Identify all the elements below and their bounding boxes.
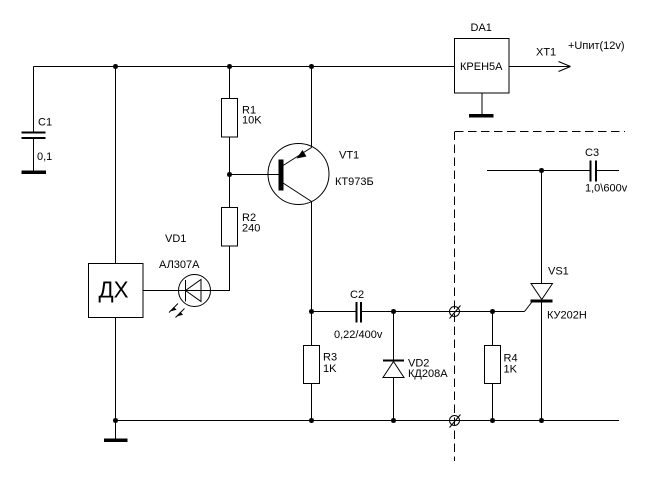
wire VD2 bottom — [393, 378, 395, 421]
wire top rail — [34, 66, 455, 68]
wire mid left of C2 — [312, 311, 356, 313]
svg-text:АЛ307А: АЛ307А — [159, 259, 200, 271]
wire C1 top — [33, 67, 35, 133]
wire VS1 cathode — [541, 303, 543, 421]
dashed boundary horizontal — [455, 131, 625, 133]
svg-text:VT1: VT1 — [339, 150, 359, 162]
resistor R3 — [304, 346, 320, 384]
node dot rail x=115 — [113, 418, 118, 423]
wire R1 to R2 — [229, 137, 231, 208]
wire DA1 output — [509, 66, 570, 68]
node dot C3 wire — [539, 168, 544, 173]
wire ground stub bottom left — [115, 421, 117, 440]
node dot top rail x=229 — [227, 64, 232, 69]
svg-text:+Uпит(12v): +Uпит(12v) — [568, 40, 625, 52]
node dot rail x=492 — [490, 418, 495, 423]
resistor R2 — [222, 208, 238, 247]
arrow XT1 — [559, 62, 571, 72]
svg-text:1,0\600v: 1,0\600v — [585, 183, 628, 195]
svg-text:C3: C3 — [585, 147, 599, 159]
wire C1 bottom — [33, 139, 35, 171]
resistor R1 — [222, 99, 238, 138]
node dot mid x=393 — [391, 309, 396, 314]
svg-text:VD1: VD1 — [165, 233, 186, 245]
IC DA1 box — [455, 39, 510, 94]
svg-text:240: 240 — [242, 223, 260, 235]
svg-text:КРЕН5А: КРЕН5А — [460, 61, 503, 73]
LED light arrow 1 — [169, 304, 178, 313]
wire base — [230, 174, 279, 176]
wire rail to R1 — [229, 67, 231, 99]
node dot rail x=311 — [309, 418, 314, 423]
connector X bottom — [450, 415, 461, 428]
svg-text:0,1: 0,1 — [37, 151, 52, 163]
svg-text:0,22/400v: 0,22/400v — [334, 329, 383, 341]
svg-text:КД208А: КД208А — [408, 368, 448, 380]
svg-text:DA1: DA1 — [471, 22, 492, 34]
ground DA1 — [469, 114, 494, 118]
wire DX to LED — [143, 290, 179, 292]
svg-text:1K: 1K — [504, 364, 518, 376]
capacitor C1 — [22, 133, 46, 139]
wire bottom rail — [116, 420, 620, 422]
svg-text:C2: C2 — [350, 289, 364, 301]
node dot mid x=492 — [490, 309, 495, 314]
dashed boundary vertical — [454, 132, 456, 462]
node dot rail x=393 — [391, 418, 396, 423]
wire R4 top — [492, 312, 494, 346]
svg-text:1K: 1K — [323, 363, 337, 375]
wire emitter — [311, 67, 313, 148]
wire C3 left — [487, 170, 590, 172]
wire R3 bottom — [311, 384, 313, 421]
wire DX top — [115, 67, 117, 264]
connector X mid — [450, 306, 461, 319]
svg-text:10K: 10K — [242, 115, 262, 127]
svg-text:C1: C1 — [38, 117, 52, 129]
wire LED to R2 — [211, 246, 230, 291]
capacitor C3 — [591, 160, 597, 181]
thyristor VS1 — [525, 284, 553, 312]
node dot rail x=541 — [539, 418, 544, 423]
svg-text:R3: R3 — [323, 352, 337, 364]
wire mid right of C2 — [362, 311, 525, 313]
node dot base — [227, 172, 232, 177]
svg-text:VS1: VS1 — [548, 266, 569, 278]
node dot mid x=311 — [309, 309, 314, 314]
LED light arrow 2 — [176, 309, 185, 318]
ground bottom left — [104, 439, 128, 443]
LED VD1 — [179, 275, 211, 307]
wire VS1 anode — [541, 171, 543, 284]
svg-text:КУ202Н: КУ202Н — [547, 310, 587, 322]
wire DX bottom — [115, 318, 117, 421]
ground C1 — [22, 170, 47, 174]
wire R4 bottom — [492, 384, 494, 421]
capacitor C2 — [357, 302, 362, 323]
node dot top rail x=115 — [113, 64, 118, 69]
svg-text:ДХ: ДХ — [99, 277, 129, 303]
wire C3 right — [597, 170, 619, 172]
wire collector — [311, 202, 313, 312]
hall sensor DX box — [89, 264, 144, 318]
node dot top rail x=311 — [309, 64, 314, 69]
wire R3 top — [311, 312, 313, 346]
svg-text:КТ973Б: КТ973Б — [335, 176, 374, 188]
svg-text:XT1: XT1 — [536, 47, 556, 59]
wire DA1 ground stub — [481, 93, 483, 114]
wire VD2 top — [393, 312, 395, 361]
resistor R4 — [485, 346, 501, 384]
diode VD2 — [383, 361, 404, 378]
transistor VT1 — [268, 144, 329, 205]
